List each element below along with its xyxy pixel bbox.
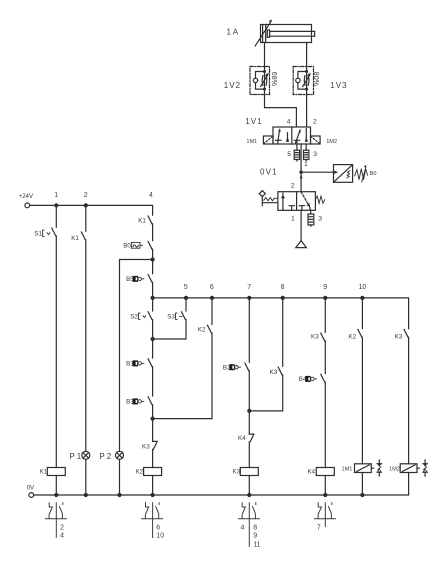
svg-text:1M1: 1M1 <box>246 139 257 145</box>
svg-text:5: 5 <box>184 284 188 291</box>
svg-text:1M2: 1M2 <box>326 139 337 145</box>
svg-text:K2: K2 <box>198 327 206 334</box>
svg-text:4: 4 <box>240 524 244 531</box>
svg-text:B0: B0 <box>123 243 131 250</box>
svg-text:2: 2 <box>60 524 64 531</box>
svg-text:6: 6 <box>156 524 160 531</box>
svg-text:3: 3 <box>318 216 322 223</box>
svg-text:8: 8 <box>253 524 257 531</box>
svg-text:K2: K2 <box>136 468 144 475</box>
svg-text:K1: K1 <box>40 468 48 475</box>
svg-text:1V1: 1V1 <box>245 117 262 126</box>
svg-text:K3: K3 <box>142 444 150 451</box>
svg-text:1: 1 <box>304 161 308 168</box>
svg-text:11: 11 <box>253 541 260 548</box>
svg-text:3: 3 <box>313 151 317 158</box>
svg-text:K3: K3 <box>395 333 403 340</box>
svg-text:1: 1 <box>291 216 295 223</box>
svg-text:2: 2 <box>84 192 88 199</box>
svg-text:K1: K1 <box>138 217 146 224</box>
svg-text:8: 8 <box>281 284 285 291</box>
svg-text:4: 4 <box>60 533 64 540</box>
svg-text:K1: K1 <box>71 235 79 242</box>
svg-text:1M2: 1M2 <box>389 466 400 472</box>
svg-text:5: 5 <box>287 151 291 158</box>
svg-text:1V3: 1V3 <box>330 81 347 90</box>
svg-text:9: 9 <box>253 533 257 540</box>
svg-text:S2: S2 <box>130 314 138 321</box>
svg-text:9: 9 <box>323 284 327 291</box>
svg-text:K3: K3 <box>233 468 241 475</box>
svg-text:P 2: P 2 <box>99 452 111 461</box>
svg-text:4: 4 <box>287 119 291 126</box>
svg-text:6: 6 <box>210 284 214 291</box>
svg-text:7: 7 <box>247 284 251 291</box>
svg-text:K4: K4 <box>238 435 246 442</box>
svg-text:K2: K2 <box>348 333 356 340</box>
svg-text:S3: S3 <box>167 314 175 321</box>
svg-text:2: 2 <box>291 183 295 190</box>
svg-text:80%: 80% <box>312 72 319 86</box>
svg-text:1: 1 <box>54 192 58 199</box>
svg-text:10: 10 <box>156 533 164 540</box>
svg-text:1 A: 1 A <box>227 27 239 36</box>
svg-text:7: 7 <box>317 524 321 531</box>
svg-text:68%: 68% <box>270 72 277 86</box>
svg-text:4: 4 <box>149 192 153 199</box>
svg-text:0V: 0V <box>27 484 35 491</box>
svg-text:S1: S1 <box>34 231 42 238</box>
svg-text:K4: K4 <box>308 468 316 475</box>
svg-text:10: 10 <box>359 284 367 291</box>
svg-text:+24V: +24V <box>19 193 34 200</box>
svg-text:1M1: 1M1 <box>342 466 353 472</box>
svg-text:0V1: 0V1 <box>260 168 278 177</box>
svg-text:K3: K3 <box>270 369 278 376</box>
svg-text:P 1: P 1 <box>69 452 81 461</box>
svg-text:2: 2 <box>313 119 317 126</box>
svg-text:B0: B0 <box>370 171 377 177</box>
svg-text:K3: K3 <box>311 333 319 340</box>
svg-text:1V2: 1V2 <box>224 81 241 90</box>
